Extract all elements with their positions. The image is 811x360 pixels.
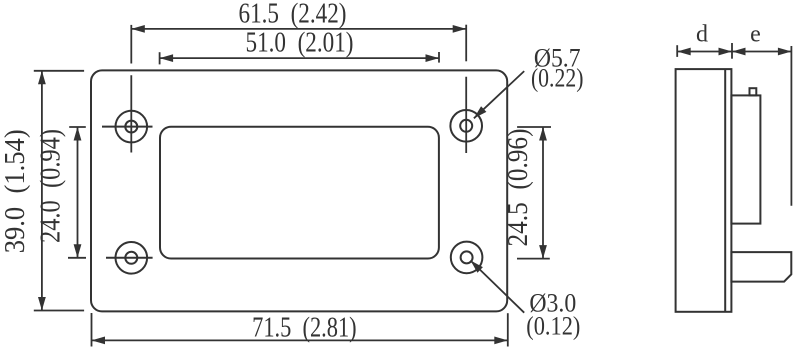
arrow 24.5 bottom	[539, 245, 547, 259]
crosshair top-left hole horizontal	[102, 126, 153, 128]
extension line 24.0 top	[69, 126, 86, 128]
extension line 39.0 bottom	[34, 310, 84, 312]
mounting hole bottom-right inner	[461, 251, 473, 263]
leader line hole dia 5.7	[474, 71, 524, 118]
crosshair bottom-left hole horizontal	[106, 257, 153, 259]
arrow d left	[677, 48, 691, 56]
extension line 61.5 left through hole	[130, 75, 132, 152]
svg-text:d: d	[696, 21, 708, 47]
mounting hole bottom-left outer	[116, 242, 148, 274]
side view case body	[731, 95, 760, 223]
display window	[160, 127, 439, 259]
mounting hole top-right outer	[450, 110, 482, 142]
extension line 61.5 right upper	[465, 25, 467, 62]
mounting hole bottom-right outer	[451, 242, 483, 274]
svg-text:24.5 (0.96): 24.5 (0.96)	[503, 129, 534, 247]
arrow 39.0 top	[38, 71, 46, 85]
side view terminal block	[731, 252, 791, 282]
arrow 71.5 left	[92, 337, 106, 345]
arrow 24.0 bottom	[74, 244, 82, 258]
tick d/e middle	[731, 43, 733, 59]
svg-text:51.0 (2.01): 51.0 (2.01)	[246, 28, 354, 59]
leader line hole dia 3.0	[471, 261, 525, 313]
extension line 61.5 right through hole	[465, 77, 467, 153]
svg-text:(0.22): (0.22)	[531, 64, 584, 93]
dim line d and e	[677, 51, 791, 53]
svg-text:e: e	[750, 21, 761, 47]
arrow e right	[778, 48, 792, 56]
mounting hole bottom-left inner	[125, 252, 137, 264]
tick 51.0 left	[159, 52, 161, 64]
extension line 71.5 left	[91, 313, 93, 347]
arrow leader 5.7	[471, 106, 486, 121]
arrow 61.5 left	[131, 25, 145, 33]
arrow 51.0 right	[426, 54, 440, 62]
arrow 24.5 top	[539, 127, 547, 141]
arrow 51.0 left	[160, 54, 174, 62]
arrow 71.5 right	[494, 337, 508, 345]
svg-text:71.5 (2.81): 71.5 (2.81)	[252, 313, 357, 344]
extension line 39.0 top	[34, 70, 84, 72]
arrow 61.5 right	[453, 25, 467, 33]
mounting hole top-left inner	[125, 121, 137, 133]
side view bezel outline	[676, 69, 732, 312]
extension line 24.5 top	[517, 126, 551, 128]
side view bezel inner face line	[724, 69, 726, 312]
dim line 24.5	[542, 127, 544, 259]
arrow 39.0 bottom	[38, 297, 46, 311]
extension line 61.5 left upper	[130, 25, 132, 64]
dim line 39.0	[41, 71, 43, 311]
extension line e right	[790, 46, 792, 206]
svg-text:24.0 (0.94): 24.0 (0.94)	[36, 129, 67, 243]
dim line 61.5	[131, 28, 466, 30]
svg-text:(0.12): (0.12)	[526, 312, 580, 341]
tick 51.0 right	[438, 52, 440, 63]
dim line 71.5	[92, 339, 508, 341]
arrow d right	[719, 48, 733, 56]
arrow e left	[732, 48, 746, 56]
side view top tab	[750, 88, 757, 95]
svg-text:61.5 (2.42): 61.5 (2.42)	[239, 0, 347, 30]
mounting hole top-right inner	[460, 120, 472, 132]
mounting hole top-left outer	[116, 111, 148, 143]
extension line 71.5 right	[507, 313, 509, 346]
tick d left	[676, 45, 678, 57]
panel outline (front view)	[91, 70, 507, 311]
extension line 24.5 bottom	[517, 258, 550, 260]
dim line 51.0	[160, 57, 439, 59]
svg-text:39.0 (1.54): 39.0 (1.54)	[0, 129, 31, 253]
arrow 24.0 top	[74, 127, 82, 141]
extension line 24.0 bottom	[68, 257, 86, 259]
arrow leader 3.0	[468, 258, 483, 273]
dim line 24.0	[77, 127, 79, 258]
